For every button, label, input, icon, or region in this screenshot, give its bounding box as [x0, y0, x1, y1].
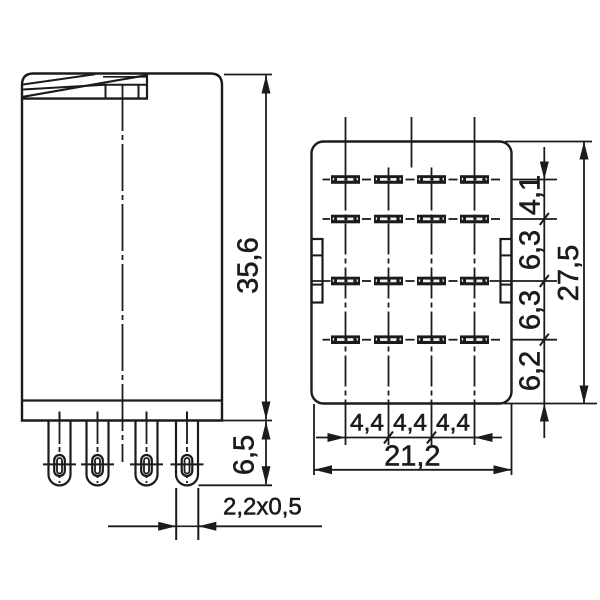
pin 3 centerline	[146, 421, 148, 483]
dim 27,5 arrow up	[580, 142, 589, 160]
svg-text:27,5: 27,5	[553, 245, 585, 301]
dim 4,4 arrow left	[475, 433, 493, 442]
pin 2 slot outer	[92, 455, 103, 476]
right view: body outline	[312, 142, 512, 404]
chain slash tick row3	[540, 275, 549, 287]
right view: left tab	[312, 239, 323, 303]
pin 2 slot inner	[95, 458, 100, 474]
dim 4,4 slash tick col2	[384, 432, 393, 444]
chain extension row4	[512, 339, 557, 341]
pin 3 cross line	[130, 463, 163, 465]
chain extension row1	[512, 179, 557, 181]
blade pin row3 col2	[374, 277, 403, 286]
dim 27,5 arrow down	[580, 386, 589, 404]
blade pin row1 col1	[331, 175, 360, 184]
dim 2,2 arrow right	[158, 522, 176, 531]
dim 4,4 arrow right	[328, 433, 346, 442]
blade pin row4 col1	[331, 335, 360, 344]
pin 4 slot inner	[185, 458, 190, 474]
chain dimension line	[543, 147, 545, 404]
chain slash tick row4	[540, 334, 549, 346]
blade pin row3 col4	[460, 277, 489, 286]
svg-text:2,2x0,5: 2,2x0,5	[223, 494, 302, 521]
right view: row1 dash line	[323, 179, 501, 181]
pin 1 outline	[49, 421, 71, 485]
left view: base plate line	[23, 399, 221, 401]
dim 21,2 arrow left	[314, 465, 332, 474]
bottom ext col4	[474, 404, 476, 445]
dimensions left	[108, 75, 322, 541]
chain arrow up at bottom	[540, 404, 549, 422]
dim 35,6 arrow down	[262, 402, 271, 420]
bottom ext body left	[313, 404, 315, 475]
dim 35,6 arrow up	[262, 76, 271, 94]
left view: band diagonal upper	[23, 74, 95, 84]
left view: band step vertical	[146, 75, 148, 99]
pin 1 slot outer	[54, 455, 65, 476]
pin 1 slot inner	[57, 458, 62, 474]
right view: top centerline stub middle	[411, 117, 413, 168]
pin 4 outline	[176, 421, 198, 485]
svg-text:4,1: 4,1	[515, 175, 547, 215]
svg-text:6,2: 6,2	[515, 351, 547, 391]
pin 1 cross line	[43, 463, 76, 465]
dim 27,5 top extension	[505, 141, 592, 143]
chain extension row2	[512, 218, 557, 220]
left view: band window top line	[104, 84, 147, 86]
pin 1 centerline	[59, 421, 61, 483]
left view: base tick pin3	[146, 412, 148, 421]
dim 6,5 mid extension line	[222, 420, 272, 422]
bottom ext body right	[511, 404, 513, 475]
dim 2,2 line mid	[176, 525, 198, 527]
left view: base tick pin1	[59, 412, 61, 421]
right view	[312, 117, 512, 404]
bottom ext col3	[431, 404, 433, 445]
pin 4 slot outer	[182, 455, 193, 476]
svg-text:6,5: 6,5	[229, 435, 261, 475]
blade pin row2 col2	[374, 215, 403, 224]
right view: col1 centerline	[345, 180, 347, 404]
pin 3 outline	[136, 421, 158, 485]
pin 2 centerline	[97, 421, 99, 483]
right view: col4 centerline	[474, 180, 476, 404]
dim 27,5 bottom extension	[504, 403, 597, 405]
left view: band sliver line	[103, 76, 147, 78]
blade pin row4 col4	[460, 335, 489, 344]
blade pin row1 col3	[417, 175, 446, 184]
svg-text:4,4: 4,4	[393, 410, 427, 437]
right view: top centerline stub col4	[474, 117, 476, 180]
dim 4,4 line	[316, 437, 502, 439]
blade pin row2 col4	[460, 215, 489, 224]
pin 3 slot inner	[144, 458, 149, 474]
right view blades	[331, 175, 489, 344]
svg-text:21,2: 21,2	[384, 441, 440, 473]
pin 4 cross line	[171, 463, 204, 465]
right view: left tab divider 2	[312, 284, 324, 286]
dim 2,2 extension left	[175, 488, 177, 540]
svg-text:4,4: 4,4	[436, 410, 470, 437]
blade pin row3 col3	[417, 277, 446, 286]
right view: col2 stub above row1	[388, 168, 390, 180]
dim 27,5 line	[583, 142, 585, 404]
blade pin row4 col2	[374, 335, 403, 344]
left view: base tick pin2	[97, 412, 99, 421]
pin 3 slot outer	[141, 455, 152, 476]
svg-text:4,4: 4,4	[350, 410, 384, 437]
left view pins	[43, 421, 204, 485]
dim 2,2 extension right	[197, 488, 199, 540]
blade pin row2 col3	[417, 215, 446, 224]
dimensions right	[314, 142, 597, 476]
dim 21,2 arrow right	[494, 465, 512, 474]
svg-text:35,6: 35,6	[233, 237, 265, 293]
dim 6,5 line	[265, 422, 267, 485]
chain extension row3	[512, 280, 557, 282]
blade pin row4 col3	[417, 335, 446, 344]
dim 6,5 arrow up	[262, 422, 271, 440]
bottom ext col1	[345, 404, 347, 445]
blade pin row1 col2	[374, 175, 403, 184]
dim 2,2 line left	[108, 525, 176, 527]
right view: right tab divider 2	[500, 284, 512, 286]
right view: right tab divider 1	[501, 254, 512, 256]
dim 21,2 line	[314, 469, 512, 471]
right view: col3 centerline	[431, 180, 433, 404]
pin 4 centerline	[186, 421, 188, 483]
blade pin row2 col1	[331, 215, 360, 224]
svg-text:6,3: 6,3	[515, 230, 547, 270]
right view: row3 line through tabs	[312, 280, 512, 282]
left view: label band bottom line	[21, 97, 148, 99]
right view: col3 stub above row1	[431, 168, 433, 180]
chain slash tick row2	[540, 213, 549, 225]
dim 35,6 top extension line	[224, 74, 272, 76]
dim 6,5 bottom extension line	[199, 484, 273, 486]
right view: top centerline stub col1	[345, 117, 347, 180]
blade pin row1 col4	[460, 175, 489, 184]
pin 2 cross line	[81, 463, 114, 465]
right view: right tab	[501, 239, 512, 303]
blade pin row3 col1	[331, 277, 360, 286]
left view: base tick pin4	[186, 412, 188, 421]
dim 2,2 arrow left	[198, 522, 216, 531]
left view: relay body outline	[22, 74, 222, 421]
chain arrow down at row1	[540, 162, 549, 180]
right view: row2 dash line	[323, 218, 501, 220]
left view: band window vertical right	[138, 85, 140, 99]
left view: band diagonal long	[23, 75, 147, 97]
right view: col2 centerline	[388, 180, 390, 404]
right view: row4 dash line	[323, 339, 501, 341]
bottom ext col2	[388, 404, 390, 445]
left view: band window vertical left	[105, 85, 107, 99]
left view: band diagonal middle	[23, 85, 105, 90]
dim 4,4 slash tick col3	[427, 432, 436, 444]
dim 35,6 line	[265, 76, 267, 420]
chain dimension tail below	[543, 404, 545, 439]
dim 6,5 arrow down	[262, 466, 271, 484]
dim 2,2 line right	[198, 525, 322, 527]
right view: left tab divider 1	[312, 254, 323, 256]
left view: body centerline	[122, 84, 124, 462]
pin 2 outline	[87, 421, 109, 485]
svg-text:6,3: 6,3	[515, 290, 547, 330]
